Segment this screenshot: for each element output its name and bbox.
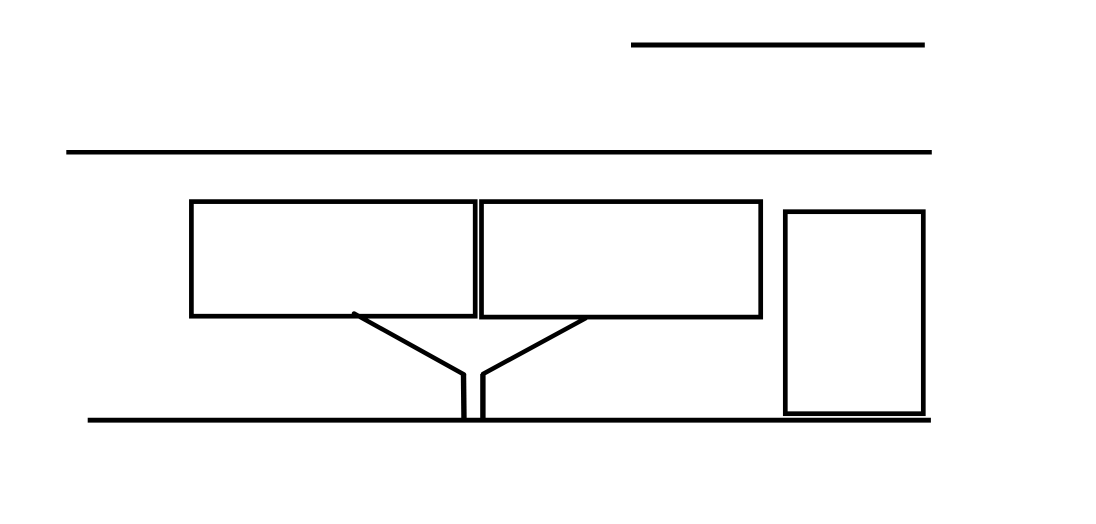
- bottom long horizontal line: [88, 418, 931, 423]
- right funnel vertical: [480, 374, 485, 420]
- box B1 (left rectangle): [191, 202, 475, 317]
- box B3 (right tall rectangle): [785, 212, 923, 414]
- upper long horizontal line: [66, 150, 932, 155]
- right funnel diagonal: [483, 318, 586, 374]
- left funnel diagonal: [354, 314, 464, 375]
- top horizontal line: [631, 42, 925, 47]
- box B2 (middle rectangle): [482, 202, 761, 318]
- left funnel vertical: [461, 375, 467, 421]
